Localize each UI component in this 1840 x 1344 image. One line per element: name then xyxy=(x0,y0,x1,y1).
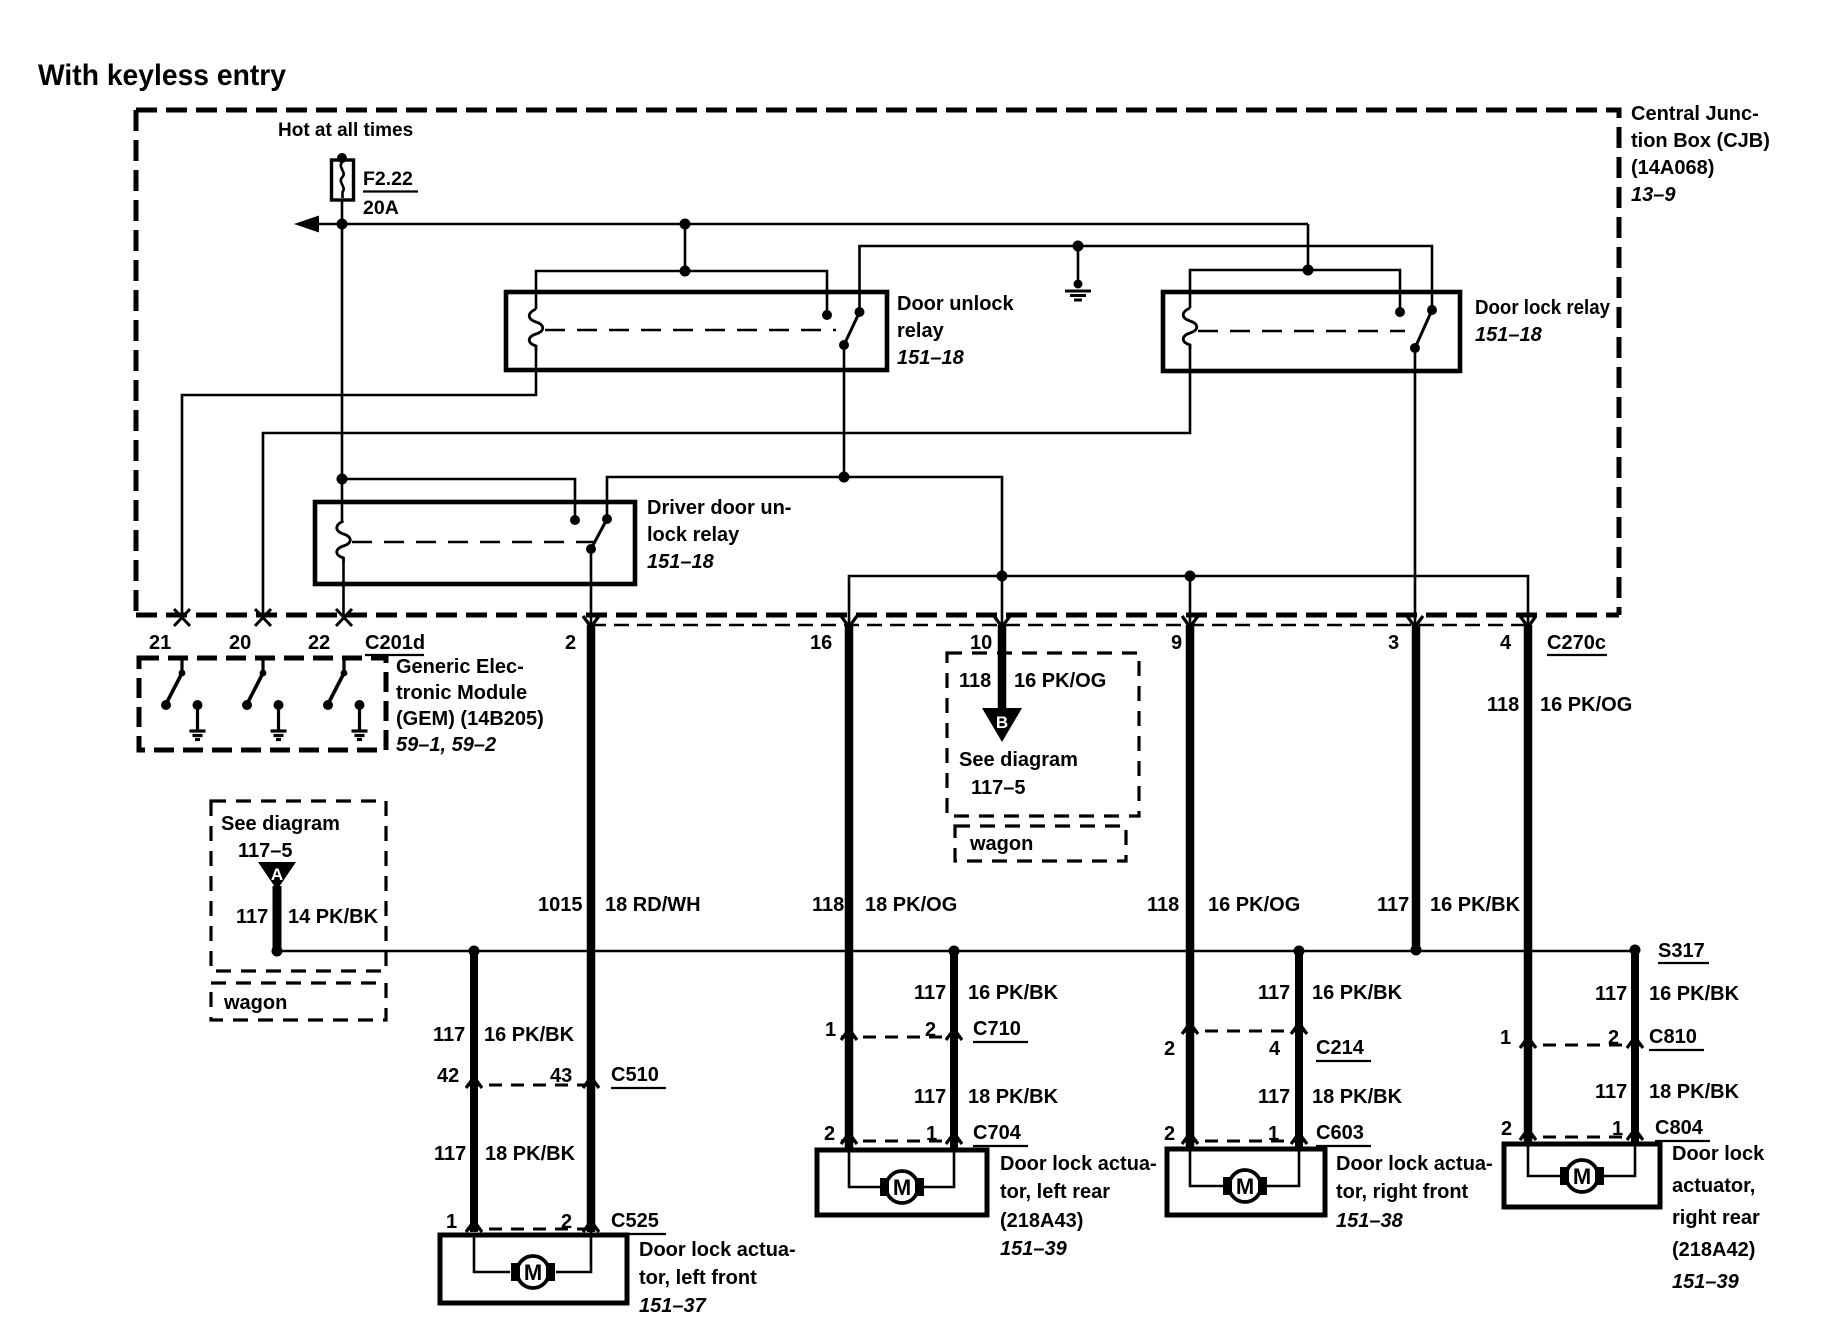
wire: fuse feed down to driver relay coil xyxy=(341,224,344,521)
svg-text:151–37: 151–37 xyxy=(639,1295,707,1317)
svg-text:1: 1 xyxy=(926,1123,937,1145)
thick wire: pin 2 circuit 1015 18 RD/WH xyxy=(587,625,596,1232)
wire: driver relay coil return to GEM pin 22 xyxy=(342,561,345,616)
label: pins 1 2 C810 xyxy=(1500,1026,1697,1049)
wire: unlock relay coil feed line xyxy=(536,271,827,315)
label: Door lock actuator right rear (218A42) 151-39 xyxy=(1672,1143,1765,1293)
label: 117 16 PK/BK (C710) xyxy=(914,982,1059,1004)
connector C603 dashed line xyxy=(1183,1140,1306,1143)
actuator: Door lock actuator left rear box xyxy=(817,1150,987,1215)
junction: rail to C510 drop xyxy=(469,946,480,957)
svg-text:16 PK/OG: 16 PK/OG xyxy=(1208,894,1300,916)
label: Door lock actuator right front 151-38 xyxy=(1336,1153,1493,1232)
svg-text:S317: S317 xyxy=(1658,940,1705,962)
wire: pin bus to actuators (pins 16,9,4) xyxy=(849,576,1528,625)
junction: feed drop at x685 xyxy=(680,219,691,230)
connector C214 dashed line xyxy=(1183,1030,1306,1033)
svg-text:4: 4 xyxy=(1269,1038,1281,1060)
svg-text:lock relay: lock relay xyxy=(647,524,740,546)
svg-text:151–39: 151–39 xyxy=(1000,1238,1068,1260)
svg-text:See diagram: See diagram xyxy=(959,749,1078,771)
svg-text:C214: C214 xyxy=(1316,1037,1365,1059)
svg-text:1: 1 xyxy=(1268,1123,1279,1145)
label: pins 2 1 C804 xyxy=(1501,1117,1704,1140)
svg-text:With keyless entry: With keyless entry xyxy=(38,59,286,92)
svg-text:151–38: 151–38 xyxy=(1336,1210,1404,1232)
svg-text:C704: C704 xyxy=(973,1122,1022,1144)
svg-text:16 PK/BK: 16 PK/BK xyxy=(1312,982,1403,1004)
thick wire: pin 4 circuit 118 16 PK/OG xyxy=(1524,625,1533,1146)
connector C704 dashed line xyxy=(841,1140,961,1143)
svg-text:117: 117 xyxy=(914,982,946,1004)
svg-text:16 PK/BK: 16 PK/BK xyxy=(1430,894,1521,916)
svg-text:2: 2 xyxy=(1164,1123,1175,1145)
junction: pin 3 wire termination xyxy=(1411,945,1422,956)
svg-text:18 PK/BK: 18 PK/BK xyxy=(968,1086,1059,1108)
svg-text:43: 43 xyxy=(550,1065,572,1087)
svg-text:1: 1 xyxy=(446,1211,457,1233)
wire: relay common ground bus xyxy=(860,246,1433,312)
svg-text:relay: relay xyxy=(897,320,945,342)
svg-text:C525: C525 xyxy=(611,1210,659,1232)
label: 117 16 PK/BK (C214) xyxy=(1258,982,1403,1004)
label: 117 18 PK/BK (C704 col) xyxy=(914,1086,1059,1108)
actuator: Door lock actuator right front box xyxy=(1167,1149,1325,1215)
motor M right rear xyxy=(1560,1160,1604,1192)
connector line C270c (thin dashed) xyxy=(591,624,1532,627)
wire label: 117 16 PK/BK (pin 3) xyxy=(1377,894,1521,916)
svg-text:18 RD/WH: 18 RD/WH xyxy=(605,894,701,916)
label: 117 18 PK/BK (C603 col) xyxy=(1258,1086,1403,1108)
svg-text:22: 22 xyxy=(308,632,330,654)
GEM dashed box xyxy=(139,658,386,750)
svg-text:right rear: right rear xyxy=(1672,1207,1760,1229)
label: 117 16 PK/BK (C810) xyxy=(1595,983,1740,1005)
fuse F2.22 20A xyxy=(332,153,354,224)
connector C804 dashed line xyxy=(1521,1136,1642,1139)
svg-text:C810: C810 xyxy=(1649,1026,1697,1048)
wire: feed to driver relay fixed contact xyxy=(342,479,575,520)
wire: unlock coil return to GEM pin 21 xyxy=(182,348,536,616)
motor M left rear xyxy=(880,1171,924,1203)
svg-text:16 PK/OG: 16 PK/OG xyxy=(1540,694,1632,716)
svg-text:18 PK/BK: 18 PK/BK xyxy=(485,1143,576,1165)
label: pins 2 4 C214 xyxy=(1164,1037,1365,1060)
wire label: 1015 18 RD/WH xyxy=(538,894,701,916)
unlock relay switch xyxy=(839,307,865,350)
label: 118 16 PK/OG at pin 4 wire xyxy=(1487,694,1632,716)
svg-text:117–5: 117–5 xyxy=(971,777,1026,799)
connector C810 dashed line xyxy=(1521,1044,1642,1047)
svg-text:117: 117 xyxy=(433,1024,465,1046)
svg-text:2: 2 xyxy=(1164,1038,1175,1060)
driver relay mechanical dashed link xyxy=(352,541,598,544)
svg-text:Door lock relay: Door lock relay xyxy=(1475,297,1611,319)
lock relay coil xyxy=(1183,308,1197,349)
svg-text:C510: C510 xyxy=(611,1064,659,1086)
svg-text:117: 117 xyxy=(1258,1086,1290,1108)
svg-text:C201d: C201d xyxy=(365,632,425,654)
label: 118 16 PK/OG inside B box xyxy=(959,670,1106,692)
wire: main hot feed line with left arrow xyxy=(317,223,1308,226)
relay: Driver door unlock relay box xyxy=(315,502,635,584)
label: 117 18 PK/BK (C804 col) xyxy=(1595,1081,1740,1103)
internal wiring right rear xyxy=(1528,1146,1635,1176)
svg-text:20A: 20A xyxy=(363,197,399,219)
svg-text:118: 118 xyxy=(1147,894,1179,916)
wire: unlock relay output down to driver-common node xyxy=(843,345,846,477)
label: Generic Electronic Module xyxy=(396,656,544,756)
dashed box: See diagram A xyxy=(211,801,386,971)
svg-text:Hot at all times: Hot at all times xyxy=(278,120,413,141)
arrow A xyxy=(258,862,296,890)
thick wire: rail drop to C710 pin 2 xyxy=(950,951,958,1152)
svg-text:16: 16 xyxy=(810,632,832,654)
wire: riser x685 to unlock relay coil line xyxy=(684,224,687,271)
svg-text:3: 3 xyxy=(1388,632,1399,654)
svg-text:Door unlock: Door unlock xyxy=(897,293,1015,315)
label: See diagram 117-5 (B) xyxy=(959,749,1078,799)
junction: driver relay feed xyxy=(337,474,348,485)
svg-text:1: 1 xyxy=(1612,1118,1623,1140)
GEM switch pin 21 xyxy=(161,658,206,740)
svg-text:16 PK/BK: 16 PK/BK xyxy=(484,1024,575,1046)
wire: feed drop to door lock relay x1308 xyxy=(1307,224,1310,270)
svg-text:117: 117 xyxy=(434,1143,466,1165)
ground symbol on common bus xyxy=(1065,241,1091,301)
svg-text:2: 2 xyxy=(1608,1027,1619,1049)
svg-text:9: 9 xyxy=(1171,632,1182,654)
svg-text:C804: C804 xyxy=(1655,1117,1704,1139)
internal wiring left front xyxy=(474,1232,591,1272)
svg-text:151–18: 151–18 xyxy=(1475,324,1543,346)
dashed box: See diagram B xyxy=(947,653,1139,816)
svg-text:Door lock actua-: Door lock actua- xyxy=(1336,1153,1493,1175)
svg-text:C603: C603 xyxy=(1316,1122,1364,1144)
svg-text:2: 2 xyxy=(561,1211,572,1233)
svg-text:16 PK/OG: 16 PK/OG xyxy=(1014,670,1106,692)
svg-text:B: B xyxy=(996,713,1008,732)
label: Door unlock relay 151-18 xyxy=(897,293,1015,369)
svg-text:117: 117 xyxy=(1595,1081,1627,1103)
svg-text:117: 117 xyxy=(1595,983,1627,1005)
svg-text:118: 118 xyxy=(812,894,844,916)
junction: A stub to rail xyxy=(272,946,283,957)
svg-text:118: 118 xyxy=(959,670,991,692)
svg-text:21: 21 xyxy=(149,632,171,654)
relay: Door lock relay box xyxy=(1163,292,1460,371)
svg-text:wagon: wagon xyxy=(223,992,287,1014)
unlock relay mechanical dashed link xyxy=(545,329,836,332)
thick wire: pin 10 circuit 118 16 PK/OG to arrow B xyxy=(998,625,1007,712)
thick wire: pin 16 circuit 118 18 PK/OG xyxy=(845,625,854,1152)
svg-text:tor, left front: tor, left front xyxy=(639,1267,757,1289)
svg-text:151–18: 151–18 xyxy=(897,347,965,369)
thick wire: rail drop to C510 pin 42 xyxy=(470,951,478,1232)
svg-text:10: 10 xyxy=(970,632,992,654)
arrow B xyxy=(982,708,1022,742)
lock relay switch xyxy=(1410,305,1437,353)
connector C525 dashed line xyxy=(467,1228,597,1231)
svg-text:20: 20 xyxy=(229,632,251,654)
svg-text:151–39: 151–39 xyxy=(1672,1271,1740,1293)
internal wiring left rear xyxy=(849,1152,954,1187)
driver relay switch xyxy=(586,514,612,554)
label: 117 16 PK/BK (C510) xyxy=(433,1024,575,1046)
svg-text:13–9: 13–9 xyxy=(1631,184,1676,206)
unlock relay coil xyxy=(529,309,543,350)
label: pins 1 2 C525 xyxy=(446,1210,659,1233)
label: Door lock actuator left rear (218A43) 151-39 xyxy=(1000,1153,1157,1260)
connector C510 dashed line xyxy=(467,1084,597,1087)
svg-text:117: 117 xyxy=(1258,982,1290,1004)
wire label: 118 18 PK/OG xyxy=(812,894,957,916)
lock relay mechanical dashed link xyxy=(1198,330,1405,333)
motor M left front xyxy=(511,1256,555,1288)
label: Central Junction Box xyxy=(1631,103,1770,206)
svg-text:117: 117 xyxy=(1377,894,1409,916)
svg-text:tion Box (CJB): tion Box (CJB) xyxy=(1631,130,1770,152)
svg-text:18 PK/BK: 18 PK/BK xyxy=(1312,1086,1403,1108)
svg-text:2: 2 xyxy=(824,1123,835,1145)
thick wire: from arrow A to rail xyxy=(273,886,282,948)
svg-text:wagon: wagon xyxy=(969,833,1033,855)
svg-text:C710: C710 xyxy=(973,1018,1021,1040)
thick wire: pin 9 circuit 118 16 PK/OG xyxy=(1186,625,1195,1151)
svg-text:Door lock: Door lock xyxy=(1672,1143,1765,1165)
svg-text:2: 2 xyxy=(925,1019,936,1041)
wire: lock relay coil feed line xyxy=(1190,270,1400,312)
pin marks at C270c xyxy=(583,616,599,627)
svg-text:117: 117 xyxy=(914,1086,946,1108)
pin marks at C201d xyxy=(174,609,190,626)
connector C710 dashed line xyxy=(841,1036,961,1039)
svg-text:Generic Elec-: Generic Elec- xyxy=(396,656,524,678)
label: 117 14 PK/BK (A) xyxy=(236,906,379,928)
motor M right front xyxy=(1223,1170,1267,1202)
actuator: Door lock actuator right rear box xyxy=(1504,1144,1660,1207)
svg-text:16 PK/BK: 16 PK/BK xyxy=(968,982,1059,1004)
actuator: Door lock actuator left front box xyxy=(440,1235,627,1303)
svg-text:See diagram: See diagram xyxy=(221,813,340,835)
GEM switch pin 22 xyxy=(323,658,368,740)
svg-text:2: 2 xyxy=(1501,1118,1512,1140)
svg-text:117–5: 117–5 xyxy=(238,840,293,862)
label: Door lock actuator left front 151-37 xyxy=(639,1239,796,1317)
svg-text:A: A xyxy=(271,865,283,884)
svg-text:Door lock actua-: Door lock actua- xyxy=(639,1239,796,1261)
svg-text:tor, right front: tor, right front xyxy=(1336,1181,1469,1203)
label: F2.22 / 20A xyxy=(363,168,413,219)
internal wiring right front xyxy=(1190,1151,1299,1186)
label: See diagram 117-5 (A) xyxy=(221,813,340,862)
junction: rail to C214 drop xyxy=(1294,946,1305,957)
junction: fuse to feed line xyxy=(337,219,348,230)
svg-text:4: 4 xyxy=(1500,632,1512,654)
svg-text:18 PK/OG: 18 PK/OG xyxy=(865,894,957,916)
svg-text:F2.22: F2.22 xyxy=(363,168,413,190)
svg-text:tor, left rear: tor, left rear xyxy=(1000,1181,1110,1203)
svg-text:18 PK/BK: 18 PK/BK xyxy=(1649,1081,1740,1103)
svg-text:(GEM) (14B205): (GEM) (14B205) xyxy=(396,708,544,730)
svg-text:(14A068): (14A068) xyxy=(1631,157,1714,179)
wire: lock relay output to pin 3 xyxy=(1414,348,1417,625)
dashed box: wagon (B) xyxy=(955,826,1126,861)
label: Door lock relay 151-18 xyxy=(1475,297,1611,346)
Central Junction Box (CJB) dashed outline xyxy=(136,110,1619,615)
wire: pin 9 riser xyxy=(1189,576,1192,625)
svg-text:118: 118 xyxy=(1487,694,1519,716)
thick wire: rail drop to C214 pin 4 xyxy=(1295,951,1303,1151)
svg-text:151–18: 151–18 xyxy=(647,551,715,573)
svg-text:tronic Module: tronic Module xyxy=(396,682,527,704)
svg-text:14 PK/BK: 14 PK/BK xyxy=(288,906,379,928)
svg-text:42: 42 xyxy=(437,1065,459,1087)
svg-text:1: 1 xyxy=(825,1019,836,1041)
wire: driver relay output to pin 2 xyxy=(590,549,593,625)
relay: Door unlock relay box xyxy=(506,292,887,370)
junction: rail to C710 drop xyxy=(949,946,960,957)
dashed box: wagon (A) xyxy=(211,983,386,1020)
svg-text:Driver door un-: Driver door un- xyxy=(647,497,791,519)
svg-text:59–1, 59–2: 59–1, 59–2 xyxy=(396,734,496,756)
label: pins 42 43 C510 xyxy=(437,1064,659,1087)
svg-text:actuator,: actuator, xyxy=(1672,1175,1755,1197)
wire label: 118 16 PK/OG (pin 9) xyxy=(1147,894,1300,916)
thick wire: pin 3 circuit 117 16 PK/BK xyxy=(1412,625,1421,949)
svg-text:16 PK/BK: 16 PK/BK xyxy=(1649,983,1740,1005)
svg-text:Central Junc-: Central Junc- xyxy=(1631,103,1759,125)
svg-text:(218A42): (218A42) xyxy=(1672,1239,1755,1261)
svg-text:C270c: C270c xyxy=(1547,632,1606,654)
svg-text:117: 117 xyxy=(236,906,268,928)
label: 117 18 PK/BK (C525 col) xyxy=(434,1143,576,1165)
label: pins 2 1 C603 xyxy=(1164,1122,1364,1145)
label: Driver door unlock relay 151-18 xyxy=(647,497,791,573)
label: pins 2 1 C704 xyxy=(824,1122,1022,1145)
junction: splice S317 xyxy=(1630,945,1641,956)
thick wire: rail drop to C810 pin 2 (S317) xyxy=(1631,951,1639,1146)
svg-text:Door lock actua-: Door lock actua- xyxy=(1000,1153,1157,1175)
wire: lock coil return to GEM pin 20 xyxy=(263,348,1190,616)
pin number labels along CJB bottom xyxy=(149,632,1606,654)
svg-text:2: 2 xyxy=(565,632,576,654)
svg-text:(218A43): (218A43) xyxy=(1000,1210,1083,1232)
wire: ground rail 117 PK/BK xyxy=(277,950,1635,953)
wire: driver relay common to CJB pin 10 xyxy=(607,477,1002,625)
svg-text:1015: 1015 xyxy=(538,894,583,916)
svg-text:1: 1 xyxy=(1500,1027,1511,1049)
driver relay coil xyxy=(337,521,351,562)
GEM switch pin 20 xyxy=(242,658,287,740)
label: pins 1 2 C710 xyxy=(825,1018,1021,1041)
